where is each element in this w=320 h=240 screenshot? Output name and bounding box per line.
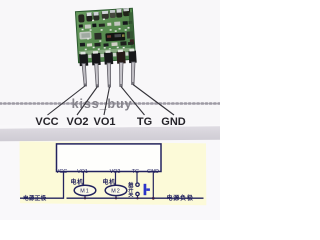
leader line to TG — [121, 87, 145, 116]
wire switch to rail — [137, 196, 139, 198]
gray gradient band under label row — [0, 126, 220, 141]
leader line to VO2 — [77, 87, 98, 116]
junction dot switch — [136, 197, 138, 199]
pin tip shadows — [84, 84, 86, 87]
PCB module photo (approximated) — [75, 8, 136, 66]
crystal silver — [79, 31, 91, 39]
wire VO2 to M2 — [115, 172, 117, 185]
wire M2 to rail — [115, 196, 117, 199]
motor M1 — [74, 185, 96, 195]
module U1 outline — [57, 144, 162, 172]
wire VCC to power positive — [20, 172, 64, 198]
junction dot M1 — [84, 197, 86, 199]
svg-text:M1: M1 — [80, 189, 90, 195]
svg-text:VCC: VCC — [35, 116, 58, 128]
second row SMDs — [79, 24, 83, 27]
motor M2 — [105, 185, 127, 195]
leader line to GND — [133, 85, 174, 116]
black IC bar — [105, 32, 125, 41]
svg-text:VO2: VO2 — [66, 116, 88, 128]
top row electrolytic caps / transistors — [78, 14, 84, 22]
svg-text:关: 关 — [128, 191, 134, 199]
5 metal pins — [82, 64, 87, 87]
wire M1 to rail — [84, 196, 86, 199]
wire VO1 to M1 — [83, 172, 85, 185]
svg-text:VO1: VO1 — [93, 116, 115, 128]
photo pin labels row — [35, 116, 185, 128]
pushbutton S1 terminals — [136, 183, 139, 186]
horizontal dashed watermark line — [0, 102, 220, 105]
svg-text:电源负极: 电源负极 — [167, 194, 194, 202]
svg-text:VCC: VCC — [56, 169, 67, 175]
junction dot M2 — [115, 197, 117, 199]
svg-text:TG: TG — [137, 116, 152, 128]
svg-text:VO1: VO1 — [77, 169, 88, 175]
pushbutton S1 actuator — [144, 184, 147, 195]
solder pad strip — [79, 48, 134, 55]
third row SMDs — [80, 43, 85, 47]
svg-text:TG: TG — [132, 169, 140, 175]
wire TG to switch — [136, 172, 138, 183]
ground rail — [67, 197, 204, 199]
svg-text:电源正极: 电源正极 — [23, 194, 47, 202]
page background — [0, 0, 220, 220]
5 black pin header blocks — [79, 54, 88, 66]
junction dot — [152, 197, 155, 200]
svg-text:M2: M2 — [111, 189, 121, 195]
pad glints — [80, 52, 85, 55]
leader line to VO1 — [104, 87, 110, 115]
wire GND down — [152, 172, 154, 198]
yellow schematic panel — [20, 141, 207, 205]
svg-text:GND: GND — [161, 116, 186, 128]
leader line to VCC — [48, 86, 86, 116]
bright speckles — [82, 29, 84, 31]
